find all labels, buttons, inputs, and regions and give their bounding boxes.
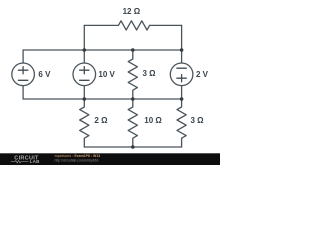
svg-text:10 Ω: 10 Ω (144, 116, 162, 125)
resistor R2 2ohm vertical (80, 99, 89, 147)
voltage source V1 circle 6V (12, 63, 35, 86)
footer logo LAB row (11, 161, 29, 163)
wire 10V source bottom lead (83, 86, 85, 99)
wire 6V source top lead (22, 50, 24, 63)
svg-text:mparsons : Exam1P6 : W13: mparsons : Exam1P6 : W13 (55, 154, 101, 158)
wire third rail (23, 98, 182, 100)
svg-text:6 V: 6 V (38, 70, 51, 79)
resistor R3a 3ohm vertical (128, 50, 137, 99)
node dot D (83, 97, 87, 101)
svg-text:2 V: 2 V (196, 70, 209, 79)
svg-text:10 V: 10 V (98, 70, 115, 79)
svg-text:3 Ω: 3 Ω (191, 116, 205, 125)
node dot G (131, 145, 135, 149)
wire right drop from top rail (181, 25, 183, 50)
resistor R3b 3ohm vertical (177, 99, 186, 147)
wire top rail left segment (84, 24, 118, 26)
minus sign V3 top (177, 67, 186, 69)
svg-text:2 Ω: 2 Ω (94, 116, 108, 125)
resistor R12 12ohm zigzag (118, 21, 149, 30)
node dot C (180, 48, 184, 52)
voltage source V2 circle 10V (73, 63, 96, 86)
node dot F (180, 97, 184, 101)
svg-text:LAB: LAB (30, 159, 40, 164)
minus sign V2 (80, 79, 89, 81)
svg-text:12 Ω: 12 Ω (123, 7, 141, 16)
wire 2V source bottom lead (181, 86, 183, 99)
svg-text:http://circuitlab.com/c/nbyb63: http://circuitlab.com/c/nbyb63 (55, 159, 99, 163)
wire top rail right segment (150, 24, 182, 26)
wire 2V source top lead (181, 50, 183, 63)
footer watermark bar (0, 153, 220, 165)
wire left drop from top rail (83, 25, 85, 50)
minus sign V1 (18, 79, 27, 81)
wire bottom rail (84, 146, 181, 148)
node dot A (83, 48, 87, 52)
svg-text:3 Ω: 3 Ω (143, 69, 157, 78)
wire 6V source bottom lead (22, 86, 24, 99)
plus sign V3 bottom (177, 75, 186, 82)
voltage source V3 circle 2V (170, 63, 193, 86)
resistor R10 10ohm vertical (128, 99, 137, 147)
plus sign V1 (18, 67, 27, 74)
plus sign V2 (80, 67, 89, 74)
node dot B (131, 48, 135, 52)
wire second rail (23, 49, 182, 51)
wire 10V source top lead (83, 50, 85, 63)
node dot E (131, 97, 135, 101)
